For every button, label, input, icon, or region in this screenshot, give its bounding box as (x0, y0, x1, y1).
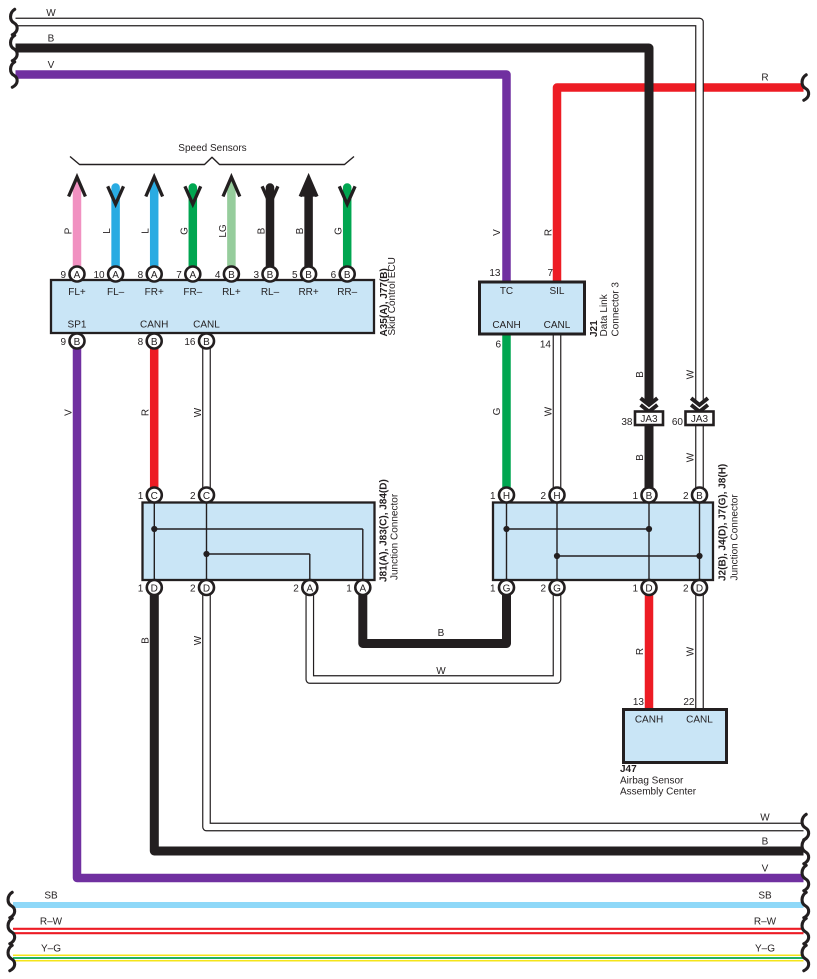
svg-text:B: B (438, 628, 445, 639)
svg-text:L: L (141, 228, 152, 234)
svg-text:CANL: CANL (686, 715, 713, 726)
svg-text:7: 7 (176, 270, 182, 281)
svg-text:G: G (492, 407, 503, 415)
svg-text:B: B (646, 491, 653, 502)
svg-text:Speed Sensors: Speed Sensors (178, 143, 246, 154)
svg-text:8: 8 (138, 270, 144, 281)
svg-text:2: 2 (683, 583, 689, 594)
svg-text:A: A (359, 584, 366, 595)
svg-text:A: A (151, 270, 158, 281)
svg-text:R: R (635, 648, 646, 655)
svg-text:W: W (686, 369, 697, 379)
svg-text:C: C (151, 491, 158, 502)
svg-text:A: A (306, 584, 313, 595)
svg-text:W: W (193, 635, 204, 645)
svg-text:16: 16 (184, 337, 196, 348)
svg-text:5: 5 (292, 270, 298, 281)
svg-text:A: A (189, 270, 196, 281)
svg-text:10: 10 (93, 270, 105, 281)
svg-text:CANH: CANH (140, 320, 168, 331)
svg-text:RL+: RL+ (222, 287, 241, 298)
svg-text:RL–: RL– (261, 287, 280, 298)
svg-text:2: 2 (683, 491, 689, 502)
svg-text:H: H (553, 491, 560, 502)
svg-text:1: 1 (490, 583, 496, 594)
svg-text:FR+: FR+ (145, 287, 164, 298)
svg-text:W: W (46, 8, 56, 19)
svg-text:B: B (257, 227, 268, 234)
svg-text:2: 2 (293, 583, 299, 594)
svg-text:C: C (203, 491, 210, 502)
svg-text:1: 1 (632, 583, 638, 594)
svg-text:CANH: CANH (492, 320, 520, 331)
svg-text:Junction Connector: Junction Connector (730, 494, 741, 581)
svg-text:CANL: CANL (544, 320, 571, 331)
svg-text:Junction Connector: Junction Connector (390, 493, 401, 580)
svg-text:7: 7 (547, 268, 553, 279)
svg-text:FL+: FL+ (68, 287, 86, 298)
svg-text:P: P (64, 227, 75, 234)
svg-text:B: B (74, 337, 81, 348)
svg-text:SB: SB (758, 891, 772, 902)
svg-text:B: B (48, 34, 55, 45)
svg-text:W: W (686, 452, 697, 462)
svg-text:V: V (64, 409, 75, 416)
svg-text:4: 4 (215, 270, 221, 281)
svg-text:R–W: R–W (40, 917, 63, 928)
svg-text:Y–G: Y–G (41, 944, 61, 955)
svg-text:RR–: RR– (337, 287, 357, 298)
svg-text:W: W (193, 407, 204, 417)
svg-text:14: 14 (540, 340, 552, 351)
svg-text:SIL: SIL (549, 286, 564, 297)
svg-text:B: B (696, 491, 703, 502)
svg-text:V: V (762, 864, 769, 875)
svg-text:D: D (645, 584, 652, 595)
svg-text:A: A (74, 270, 81, 281)
svg-text:60: 60 (672, 417, 684, 428)
svg-text:W: W (760, 813, 770, 824)
svg-text:J81(A), J83(C), J84(D): J81(A), J83(C), J84(D) (379, 479, 390, 582)
svg-text:13: 13 (633, 697, 645, 708)
svg-text:G: G (553, 584, 561, 595)
svg-text:JA3: JA3 (691, 414, 709, 425)
svg-text:Assembly Center: Assembly Center (620, 787, 697, 798)
svg-text:J2(B), J4(D), J7(G), J8(H): J2(B), J4(D), J7(G), J8(H) (718, 464, 729, 581)
svg-text:B: B (635, 454, 646, 461)
svg-text:J47: J47 (620, 764, 637, 775)
svg-text:G: G (179, 227, 190, 235)
svg-text:JA3: JA3 (640, 414, 658, 425)
svg-text:Airbag Sensor: Airbag Sensor (620, 776, 684, 787)
svg-text:B: B (141, 637, 152, 644)
svg-text:FR–: FR– (183, 287, 202, 298)
svg-text:B: B (151, 337, 158, 348)
svg-text:W: W (686, 646, 697, 656)
svg-text:B: B (635, 371, 646, 378)
svg-text:W: W (544, 406, 555, 416)
svg-text:9: 9 (60, 337, 66, 348)
svg-text:2: 2 (190, 491, 196, 502)
svg-text:B: B (295, 227, 306, 234)
svg-text:G: G (503, 584, 511, 595)
svg-text:TC: TC (500, 286, 513, 297)
svg-text:Data Link: Data Link (599, 293, 610, 336)
svg-text:R: R (141, 409, 152, 416)
svg-text:R: R (761, 73, 768, 84)
svg-text:6: 6 (331, 270, 337, 281)
svg-text:6: 6 (495, 340, 501, 351)
svg-text:1: 1 (490, 491, 496, 502)
svg-text:SP1: SP1 (68, 320, 87, 331)
svg-text:8: 8 (138, 337, 144, 348)
svg-text:2: 2 (540, 583, 546, 594)
svg-text:L: L (102, 228, 113, 234)
svg-text:1: 1 (138, 583, 144, 594)
svg-text:A: A (112, 270, 119, 281)
svg-text:R–W: R–W (754, 917, 777, 928)
svg-text:Skid Control ECU: Skid Control ECU (387, 257, 398, 335)
svg-text:B: B (762, 837, 769, 848)
svg-text:3: 3 (253, 270, 259, 281)
svg-text:Connector 3: Connector 3 (611, 282, 622, 337)
svg-text:CANH: CANH (635, 715, 663, 726)
svg-text:D: D (151, 584, 158, 595)
svg-text:2: 2 (190, 583, 196, 594)
svg-text:22: 22 (683, 697, 695, 708)
svg-text:SB: SB (44, 891, 58, 902)
svg-text:1: 1 (138, 491, 144, 502)
svg-text:1: 1 (346, 583, 352, 594)
svg-text:D: D (696, 584, 703, 595)
svg-text:13: 13 (489, 268, 501, 279)
svg-text:9: 9 (60, 270, 66, 281)
svg-text:R: R (544, 229, 555, 236)
svg-text:2: 2 (540, 491, 546, 502)
svg-text:B: B (305, 270, 312, 281)
svg-text:V: V (492, 229, 503, 236)
svg-text:38: 38 (621, 417, 633, 428)
svg-text:B: B (203, 337, 210, 348)
svg-text:1: 1 (632, 491, 638, 502)
svg-text:W: W (436, 666, 446, 677)
svg-text:FL–: FL– (107, 287, 125, 298)
svg-text:V: V (48, 60, 55, 71)
svg-text:B: B (344, 270, 351, 281)
svg-text:B: B (267, 270, 274, 281)
svg-text:CANL: CANL (193, 320, 220, 331)
svg-text:G: G (334, 227, 345, 235)
svg-text:B: B (228, 270, 235, 281)
svg-text:D: D (203, 584, 210, 595)
svg-text:RR+: RR+ (298, 287, 318, 298)
svg-text:Y–G: Y–G (755, 944, 775, 955)
svg-text:LG: LG (218, 224, 229, 238)
svg-text:H: H (503, 491, 510, 502)
